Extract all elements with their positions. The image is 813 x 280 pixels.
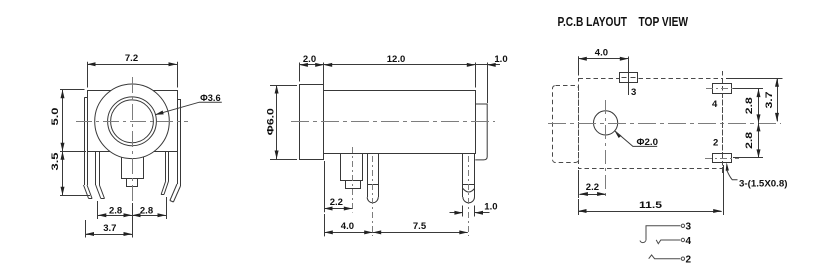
pcb pad 3 [620, 57, 638, 96]
pad number 2 [713, 137, 718, 148]
svg-text:5.0: 5.0 [50, 108, 61, 126]
schematic pin number 2 [686, 255, 692, 266]
dimension 2.8 lower right [733, 123, 763, 158]
pad number 3 [631, 87, 636, 98]
svg-text:Φ3.6: Φ3.6 [200, 93, 221, 104]
front view right ear [177, 99, 181, 186]
pcb outline dashed [579, 79, 723, 169]
dimension 2.2 bottom [324, 161, 352, 212]
dimension 4.0 pcb [578, 48, 628, 76]
side view left pin centerline [372, 156, 374, 236]
svg-text:2: 2 [686, 255, 692, 266]
schematic switch contact line 4 [656, 240, 680, 244]
side view left pin [367, 153, 378, 203]
pcb hole circle [594, 111, 618, 135]
svg-text:P.C.B LAYOUT: P.C.B LAYOUT [558, 15, 628, 29]
pcb hole vertical centerline [605, 100, 607, 199]
dimension 2.8 left of center [98, 201, 133, 219]
svg-text:2.8: 2.8 [140, 205, 153, 216]
front view horizontal centerline [76, 121, 188, 123]
dimension 2.2 pcb [579, 170, 606, 198]
front view barrel circle [95, 84, 170, 159]
svg-text:4.0: 4.0 [595, 48, 608, 59]
svg-text:4: 4 [712, 99, 718, 110]
svg-text:2.8: 2.8 [109, 205, 122, 216]
svg-text:3: 3 [631, 87, 636, 98]
label diameter 3.6 with leader [155, 93, 222, 115]
svg-text:2.2: 2.2 [330, 197, 343, 208]
pcb horizontal centerline [548, 123, 781, 125]
dimension 1.0 pin width [450, 202, 498, 217]
dimension diameter 6.0 left [265, 85, 297, 160]
dimension 7.5 bottom [373, 221, 468, 234]
schematic sleeve contact line 2 [649, 255, 681, 259]
svg-text:11.5: 11.5 [639, 200, 663, 211]
dimension 5.0 left [50, 90, 86, 152]
note 3-(1.5X0.8) with leader [726, 162, 788, 189]
schematic terminal circle 3 [681, 224, 684, 227]
schematic terminal circle 4 [681, 238, 684, 241]
pcb flange outline dashed [553, 86, 579, 163]
title P.C.B LAYOUT TOP VIEW [558, 15, 689, 29]
label diameter 2.0 with leader [614, 131, 658, 148]
front view left ear [84, 98, 87, 186]
svg-text:2.8: 2.8 [744, 97, 755, 114]
svg-text:12.0: 12.0 [387, 54, 406, 65]
front view mount tab [122, 151, 144, 187]
pcb pad 2 [713, 154, 732, 163]
svg-text:1.0: 1.0 [484, 202, 497, 213]
pcb pad 2 centerline [705, 158, 739, 160]
svg-text:2.2: 2.2 [586, 182, 599, 193]
svg-text:4: 4 [686, 236, 692, 247]
front view right inner leg [161, 152, 169, 195]
front view vertical centerline [132, 77, 134, 203]
dimension 11.5 pcb [578, 165, 724, 215]
side view end cap [475, 104, 487, 160]
side view horizontal centerline [291, 121, 495, 123]
svg-text:4.0: 4.0 [341, 221, 354, 232]
svg-text:TOP VIEW: TOP VIEW [639, 15, 689, 29]
dimension 3.5 left [50, 151, 90, 195]
svg-text:7.5: 7.5 [413, 221, 427, 232]
side view flange [300, 85, 324, 160]
schematic pin number 3 [686, 222, 692, 233]
svg-text:Φ6.0: Φ6.0 [265, 108, 276, 135]
svg-text:7.2: 7.2 [125, 53, 138, 64]
pcb pads vertical dashed line [722, 71, 724, 176]
svg-text:3: 3 [686, 222, 692, 233]
dimension 2.8 right of center [132, 197, 167, 219]
svg-text:3-(1.5X0.8): 3-(1.5X0.8) [739, 178, 788, 189]
front view ring inner (hole 3.6) [111, 100, 154, 143]
dimension 1.0 top right [475, 54, 507, 103]
front view left outer leg [84, 152, 93, 199]
svg-text:Φ2.0: Φ2.0 [637, 137, 659, 148]
dimension 3.7 bottom [86, 219, 133, 238]
svg-text:2.0: 2.0 [303, 54, 316, 65]
svg-text:1.0: 1.0 [494, 54, 507, 65]
side view right pin [463, 153, 475, 203]
front view left inner leg [96, 152, 105, 199]
schematic tip contact line 3 [640, 226, 680, 243]
svg-text:3.7: 3.7 [103, 223, 116, 234]
side view right pin centerline [468, 156, 470, 236]
svg-text:3.5: 3.5 [50, 152, 61, 171]
dimension 2.8 upper right [733, 89, 763, 123]
side view mount tab [341, 154, 363, 189]
schematic terminal circle 2 [681, 257, 684, 260]
front view body [88, 91, 178, 152]
dimension 7.2 top [87, 53, 178, 87]
side view tab centerline [352, 147, 354, 213]
svg-text:2.8: 2.8 [744, 132, 755, 149]
dimension 2.0 top [299, 54, 323, 88]
side view body [324, 91, 476, 154]
svg-text:3.7: 3.7 [764, 92, 775, 109]
front view ring outer [108, 97, 157, 146]
dimension 4.0 bottom [324, 214, 372, 236]
pcb pad 4 [713, 84, 732, 94]
front view right outer leg [170, 152, 181, 203]
pad number 4 [712, 99, 718, 110]
schematic pin number 4 [686, 236, 692, 247]
dimension 3.7 right [726, 78, 783, 121]
svg-text:2: 2 [713, 137, 718, 148]
dimension 12.0 top [324, 54, 476, 88]
pcb pad 4 centerline [706, 88, 739, 90]
